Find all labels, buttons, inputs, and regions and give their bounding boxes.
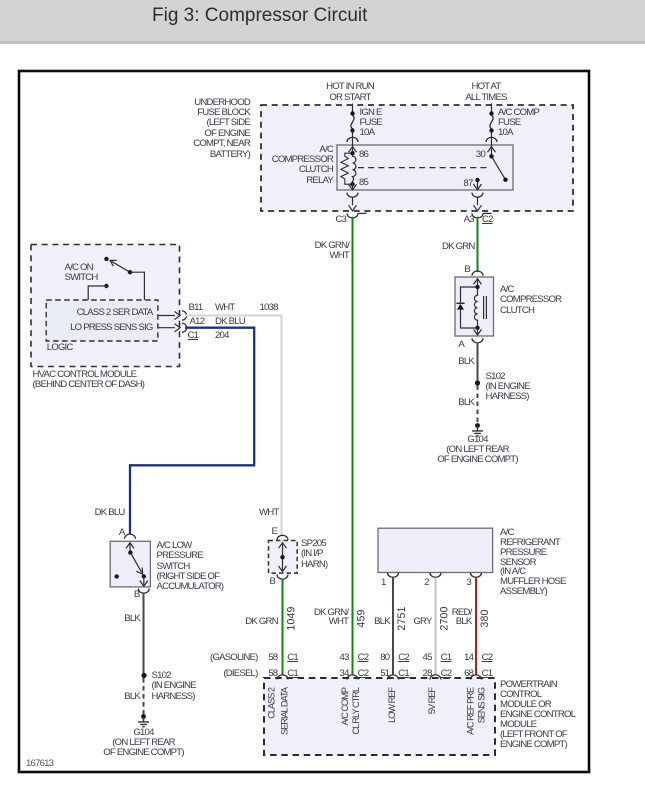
node 85 (350, 182, 354, 186)
connector E arc at SP205 (277, 535, 288, 540)
bottom wire color labels (245, 617, 278, 627)
A/C ON SWITCH arm with arrow (112, 261, 131, 272)
sensor pin 3 arc (471, 573, 482, 578)
A/C ON SWITCH contact open (104, 257, 108, 261)
connector A arc below clutch (472, 338, 483, 343)
mechanical dashed link coil to switch (358, 167, 488, 169)
arrow up into relay pin 30 (488, 147, 496, 153)
connector arc into relay (right) (486, 137, 497, 142)
clutch labels (464, 265, 470, 275)
wire 85 down out of relay (352, 184, 354, 189)
relay box U1 A/C COMPRESSOR CLUTCH RELAY (337, 145, 513, 190)
wire DK GRN circuit 1049 to PCM (282, 579, 284, 676)
connector B arc below switch (138, 589, 149, 594)
switch arm with arrow (130, 553, 141, 573)
relay switch arm 30 to contact (492, 156, 506, 179)
svg-text:1049: 1049 (286, 606, 298, 630)
sensor pin 2 arc (430, 573, 441, 578)
node 86 (350, 151, 354, 155)
SP205 internal wire with arrows and dot (279, 543, 287, 572)
fuse F1 IGN E FUSE 10A (351, 115, 354, 129)
svg-text:CLASS 2: CLASS 2 (266, 687, 276, 719)
svg-text:A/C COMP: A/C COMP (340, 687, 350, 725)
connector arc below relay (right) (472, 193, 483, 198)
splice S102 (left) (141, 673, 146, 678)
svg-text:SERIAL DATA: SERIAL DATA (279, 686, 289, 735)
connector A arc at pressure switch (125, 534, 136, 539)
wire hot at all times to fuse (491, 104, 493, 157)
relay coil zigzag left branch (341, 153, 353, 184)
svg-text:2700: 2700 (439, 606, 451, 630)
underhood fuse block (dashed box) (261, 105, 573, 211)
gasoline/diesel pin rows (210, 653, 257, 663)
wire WHT circuit 1038 (185, 316, 282, 536)
title bar (0, 0, 645, 44)
wire RED/BLK circuit 380 (475, 578, 477, 676)
svg-text:380: 380 (479, 609, 491, 627)
A/C low pressure switch box (110, 541, 150, 587)
HVAC control module dashed box (31, 245, 180, 367)
A/C refrigerant pressure sensor box (378, 528, 493, 572)
connector arc into relay (left) (347, 137, 358, 142)
wire DK GRN/WHT from C3 down to PCM (352, 217, 354, 676)
wire BLK switch to S102 (143, 593, 145, 676)
connector A3/C2 arc (472, 213, 492, 218)
wire BLK circuit 2751 (392, 578, 394, 676)
wire down to fuse block edge (right) (477, 197, 479, 205)
wire hot in run to fuse (352, 104, 354, 154)
diagram number (26, 759, 53, 769)
svg-text:2751: 2751 (396, 606, 408, 630)
wire logic out B11 (158, 315, 175, 317)
connector arc below relay (left) (347, 193, 358, 198)
connector B arc at clutch (472, 271, 483, 276)
relay pin 87 (475, 178, 479, 182)
wire GRY circuit 2700 (435, 578, 437, 676)
svg-text:5V REF: 5V REF (427, 687, 437, 715)
connector B11 arc (182, 311, 187, 320)
svg-text:A/C REF PRE: A/C REF PRE (465, 687, 475, 735)
connector C3 arc (347, 213, 367, 218)
clutch exit arrow (474, 328, 482, 335)
A/C ON SWITCH lower contact (104, 284, 108, 288)
wire DK BLU circuit 204 (130, 328, 254, 535)
wire labels mid (95, 508, 125, 518)
clutch nodes (475, 285, 479, 289)
wire down to fuse block edge (352, 197, 354, 205)
wire arm to logic (130, 272, 144, 300)
wire BLK dashed to ground (143, 678, 145, 715)
svg-text:CL RLY CTRL: CL RLY CTRL (351, 687, 361, 734)
LOGIC inner dashed box (46, 300, 158, 341)
wire logic out A12 (158, 327, 175, 329)
arrow down out of switch (140, 576, 148, 586)
PCM right text (500, 680, 575, 750)
splice box SP205 (269, 541, 298, 574)
pressure switch labels (119, 528, 125, 538)
A/C compressor clutch box (455, 277, 494, 336)
switch contact to B (142, 574, 146, 578)
ground G104 (left) (141, 714, 146, 719)
svg-text:459: 459 (356, 609, 368, 627)
fuse F2 A/C COMP FUSE 10A (490, 115, 493, 129)
sensor labels (500, 528, 566, 597)
svg-text:LOW REF: LOW REF (387, 687, 397, 723)
wire contact to logic (88, 286, 106, 300)
diagram frame (19, 71, 589, 772)
arrow up into relay pin 86 (349, 147, 357, 153)
wire BLK clutch to S102 (477, 343, 479, 384)
connector B arc below SP205 (277, 575, 288, 580)
relay coil between 86 and 85: right coil bumps (353, 153, 356, 184)
arrow up into switch (126, 543, 134, 553)
clutch entry arrow (474, 279, 482, 287)
clutch coil L1 with bumps (474, 287, 477, 328)
splice S102 (right) (475, 380, 480, 385)
PCM rotated pin labels (266, 686, 486, 735)
text labels: HVAC module (65, 263, 98, 283)
sensor pin 1 arc (388, 573, 399, 578)
svg-text:SENS SIG: SENS SIG (477, 687, 487, 723)
diode D1 branch (461, 287, 478, 328)
switch pivot dot (128, 550, 132, 554)
connector A12 arc (182, 323, 187, 332)
wire DK GRN from A3 down to clutch (477, 217, 479, 272)
clutch core bars (484, 296, 487, 319)
SP205 labels (272, 527, 278, 537)
wire BLK dashed to ground (right) (477, 386, 479, 424)
ground G104 (right) (475, 423, 480, 428)
dead contact (115, 574, 119, 578)
PCM dashed box (264, 678, 495, 755)
PCM pin arcs (277, 675, 288, 680)
text labels top (290, 82, 410, 102)
